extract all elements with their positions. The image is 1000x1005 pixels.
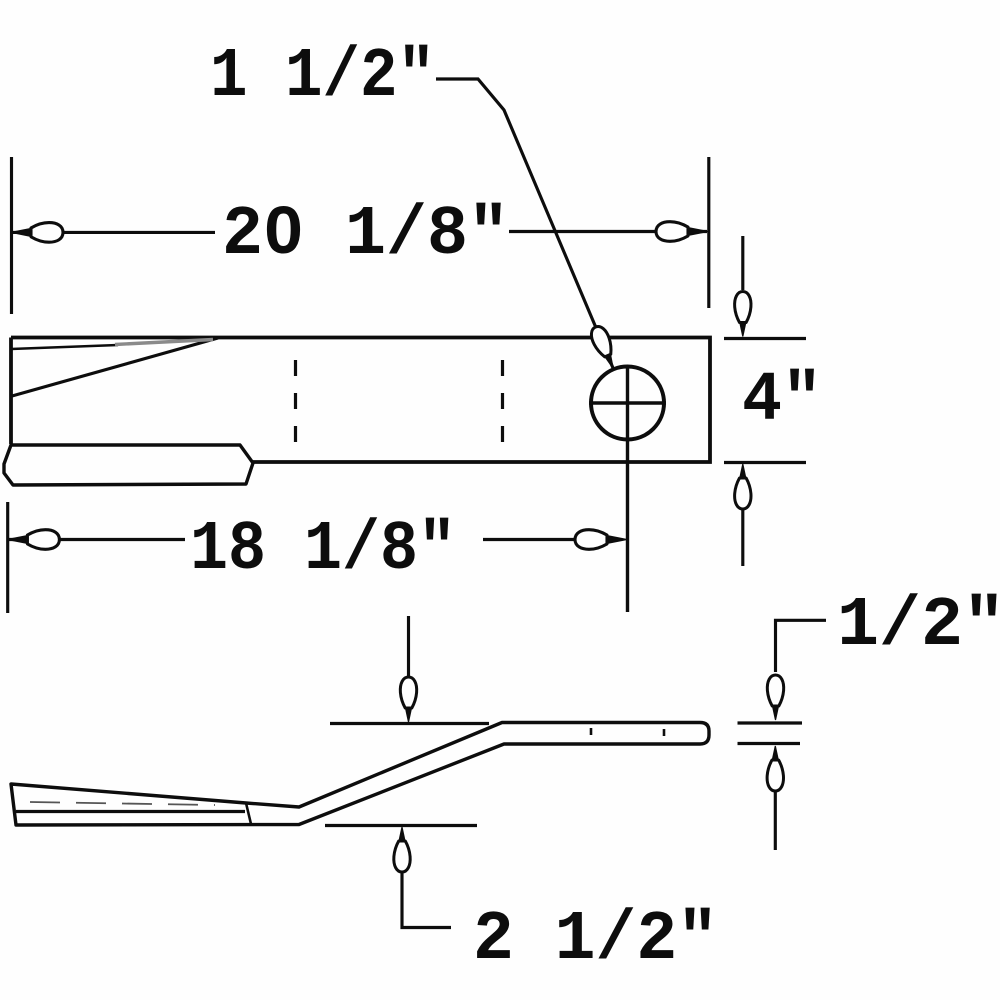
side profile outline — [11, 723, 709, 826]
right extension line — [707, 157, 710, 308]
top extension line — [724, 337, 806, 340]
faint broken bevel line — [30, 802, 215, 805]
lower arrowhead pointing up — [767, 747, 783, 792]
down arrow line — [407, 616, 410, 676]
upper arrowhead pointing down — [767, 675, 783, 720]
lower edge bar (rounded) — [4, 445, 253, 485]
hole circle — [591, 367, 664, 440]
inner edge line — [16, 810, 245, 813]
up arrowhead — [394, 828, 410, 873]
upper arrow with leader to label — [776, 620, 827, 672]
bottom reference line — [325, 824, 477, 827]
leader arrowhead — [588, 324, 620, 371]
upper bevel line — [11, 345, 118, 349]
svg-text:4": 4" — [742, 362, 822, 441]
svg-text:1/2": 1/2" — [837, 587, 1000, 666]
lower arrow line — [741, 510, 744, 566]
dimension line right part — [509, 230, 707, 233]
up arrow with leader — [402, 872, 451, 928]
top reference line — [330, 722, 489, 725]
upper arrow line — [741, 236, 744, 290]
top extension line — [738, 721, 803, 724]
hole horizontal centerline — [589, 401, 666, 404]
blade body outline — [11, 338, 710, 463]
right arrowhead — [656, 222, 707, 242]
svg-text:18 1/8": 18 1/8" — [190, 511, 456, 590]
svg-text:1 1/2": 1 1/2" — [210, 38, 435, 117]
left extension line — [10, 157, 13, 314]
bottom extension line — [738, 742, 801, 745]
hole vertical centerline — [626, 367, 629, 612]
left arrowhead — [12, 223, 63, 243]
bend line dashed 2 — [501, 360, 504, 444]
right arrowhead — [575, 530, 626, 550]
zero counter patch — [278, 221, 289, 234]
left extension line — [6, 502, 9, 613]
rivet mark 2 — [663, 729, 666, 736]
dimension line right part — [483, 538, 620, 541]
dimension line left part — [12, 231, 215, 234]
cutting-edge bevel diagonal — [12, 338, 218, 396]
down arrowhead — [400, 677, 416, 722]
bevel tick — [246, 803, 251, 824]
lower arrow line — [774, 790, 777, 850]
upper arrowhead pointing down — [735, 292, 751, 337]
svg-text:2 1/2": 2 1/2" — [473, 901, 718, 980]
rivet mark 1 — [590, 728, 593, 735]
bottom extension line — [724, 461, 806, 464]
lower arrowhead pointing up — [735, 465, 751, 510]
dimension line left part — [8, 538, 185, 541]
leader line — [436, 79, 613, 368]
left arrowhead — [8, 530, 59, 550]
svg-text:20 1/8": 20 1/8" — [222, 196, 509, 275]
bevel smear — [115, 340, 213, 345]
bend line dashed 1 — [294, 360, 297, 444]
